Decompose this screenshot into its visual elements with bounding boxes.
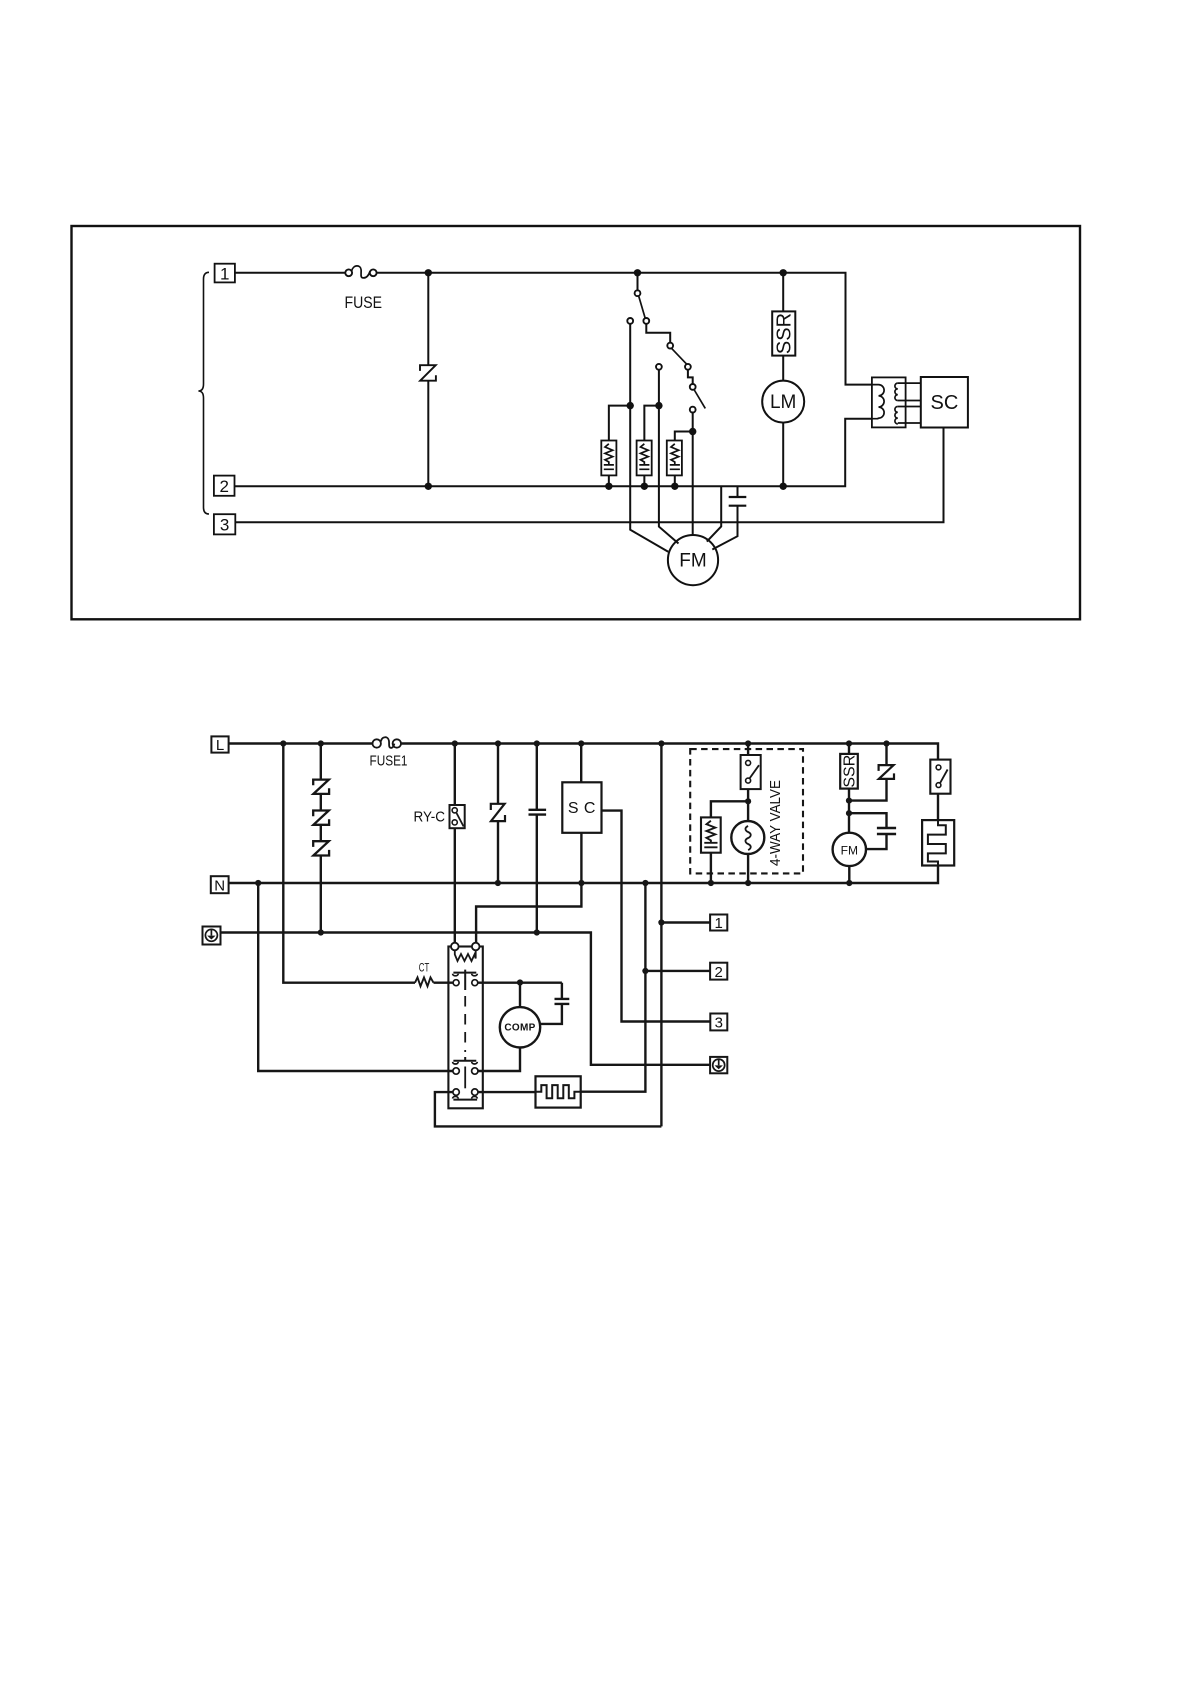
svg-text:N: N [214,877,225,894]
svg-text:SC: SC [931,392,959,414]
svg-text:1: 1 [220,264,229,283]
svg-text:2: 2 [219,477,228,496]
svg-text:FUSE: FUSE [345,293,383,312]
svg-text:FUSE1: FUSE1 [370,753,408,770]
svg-text:CT: CT [419,961,430,975]
svg-text:LM: LM [770,392,796,413]
svg-text:S C: S C [568,800,596,817]
svg-text:4-WAY VALVE: 4-WAY VALVE [767,780,784,866]
svg-text:2: 2 [715,964,723,981]
svg-text:3: 3 [715,1015,723,1032]
svg-text:COMP: COMP [504,1023,535,1034]
svg-text:FM: FM [679,551,706,572]
svg-text:SSR: SSR [841,755,858,788]
svg-text:1: 1 [715,915,723,932]
svg-text:SSR: SSR [774,313,796,354]
svg-text:RY-C: RY-C [414,809,446,826]
svg-text:FM: FM [841,843,858,857]
svg-text:3: 3 [220,516,229,535]
svg-text:L: L [216,737,224,754]
